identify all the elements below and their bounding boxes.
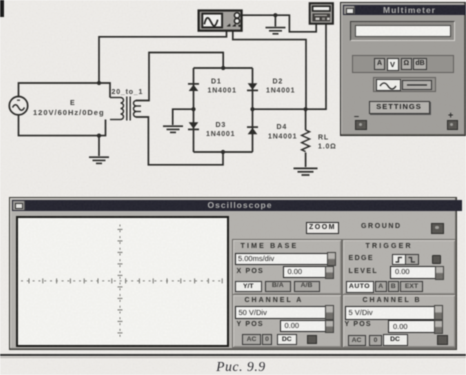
- minus label: [354, 111, 359, 121]
- wire RL top lead: [305, 109, 307, 130]
- button V (pressed): [387, 58, 399, 71]
- mode buttons strip: [352, 55, 454, 74]
- wire source bottom lead to transformer primary bottom: [19, 115, 106, 136]
- node junction bridge left mid: [191, 107, 195, 111]
- multimeter icon: [310, 3, 333, 24]
- resistor RL: [302, 130, 310, 152]
- wire RL bottom lead to ground: [305, 153, 307, 168]
- CHANNEL B group: [342, 294, 457, 349]
- AUTO pressed: [346, 281, 374, 293]
- node junction RL top: [304, 107, 308, 111]
- diode D3: [188, 122, 199, 129]
- button DC: [402, 80, 432, 90]
- title bar: [343, 5, 466, 16]
- corner scan artifact: [0, 0, 4, 17]
- transformer T1: [110, 97, 141, 121]
- waveform strip: [373, 77, 436, 93]
- diode D1: [188, 84, 199, 91]
- screen bezel: [16, 216, 229, 347]
- button dB: [413, 58, 427, 70]
- SETTINGS button: [369, 101, 430, 114]
- node junction primary bottom / source ground: [97, 134, 101, 138]
- wire ground stem at primary bottom junction: [98, 136, 100, 156]
- wire bridge right edge: [252, 68, 254, 152]
- Y/T pressed: [235, 281, 262, 292]
- wire scope channel B probe to output node: [233, 31, 306, 109]
- GROUND label: [361, 223, 402, 230]
- wire bridge top edge: [194, 67, 253, 69]
- minus terminal: [355, 120, 367, 130]
- system menu box: [344, 6, 355, 15]
- ground at transformer primary: [89, 157, 109, 163]
- wire transformer secondary bottom to bridge bottom node: [136, 117, 223, 165]
- CHANNEL A group: [232, 294, 343, 349]
- diode D4: [247, 127, 258, 134]
- LCD display: [350, 21, 455, 42]
- TRIGGER group: [342, 239, 457, 295]
- button Ohm: [401, 58, 413, 70]
- plus terminal: [447, 120, 459, 130]
- wire bridge output to multimeter plus: [253, 24, 327, 110]
- ZOOM button: [306, 222, 339, 234]
- wire transformer secondary top to bridge top node: [136, 53, 223, 101]
- node junction bridge bottom: [221, 150, 225, 154]
- wire bridge left mid node to ground: [173, 109, 194, 125]
- diode D2: [247, 83, 258, 90]
- wire scope channel A probe down to primary top rail: [99, 31, 227, 83]
- ground terminal: [431, 223, 444, 234]
- wire bridge bottom edge: [194, 151, 253, 153]
- wire ground stem near instrument icons: [274, 15, 276, 26]
- system menu box: [13, 201, 25, 210]
- node junction bridge top: [221, 66, 225, 70]
- node junction ground tap near icons: [273, 13, 277, 17]
- ground near instrument icons: [266, 28, 286, 34]
- button sine (pressed): [376, 79, 401, 91]
- AC source E: [9, 97, 27, 115]
- button A: [374, 58, 385, 70]
- ground at RL bottom: [294, 168, 318, 175]
- node junction primary top: [97, 81, 101, 85]
- ground at bridge left mid: [163, 126, 183, 132]
- oscilloscope icon: [199, 11, 242, 31]
- TIME BASE group: [232, 239, 343, 295]
- wire source top lead to transformer primary top: [19, 83, 111, 98]
- plus label: [448, 110, 453, 120]
- title bar: [12, 200, 462, 211]
- wire scope icon plus terminal to multimeter minus terminal: [242, 15, 316, 32]
- wire bridge left edge: [193, 68, 195, 152]
- node junction bridge right mid: [250, 107, 254, 111]
